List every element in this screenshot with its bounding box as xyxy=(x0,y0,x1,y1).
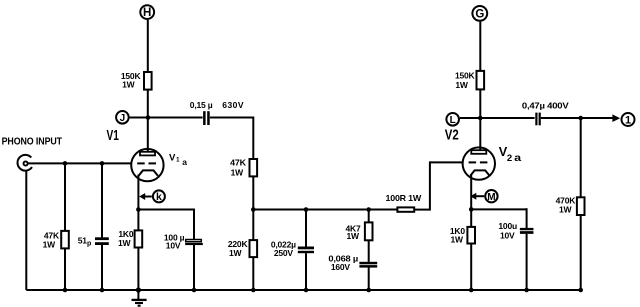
svg-text:M: M xyxy=(487,192,495,203)
svg-text:V2: V2 xyxy=(445,126,459,143)
svg-text:0,15 µ: 0,15 µ xyxy=(190,100,213,110)
svg-text:1W: 1W xyxy=(118,238,132,248)
svg-text:160V: 160V xyxy=(331,262,351,272)
svg-text:V1: V1 xyxy=(107,127,119,144)
svg-text:G: G xyxy=(475,8,484,20)
svg-text:L: L xyxy=(450,115,456,126)
svg-text:630V: 630V xyxy=(222,100,244,110)
svg-text:1W: 1W xyxy=(43,240,57,250)
svg-text:1W: 1W xyxy=(229,248,243,258)
svg-text:1W: 1W xyxy=(231,168,245,178)
svg-text:51: 51 xyxy=(78,235,88,245)
svg-text:1W: 1W xyxy=(451,234,465,244)
svg-text:a: a xyxy=(514,153,522,164)
svg-text:1W: 1W xyxy=(346,231,360,241)
svg-text:250V: 250V xyxy=(274,248,294,258)
svg-text:p: p xyxy=(87,241,91,248)
svg-text:J: J xyxy=(120,113,126,124)
svg-text:1: 1 xyxy=(625,114,631,126)
svg-text:47K: 47K xyxy=(230,158,247,168)
svg-text:1W: 1W xyxy=(559,205,573,215)
svg-text:0,47µ 400V: 0,47µ 400V xyxy=(522,101,569,111)
svg-text:V: V xyxy=(169,152,176,163)
svg-text:k: k xyxy=(156,191,162,203)
svg-text:H: H xyxy=(143,7,151,19)
svg-text:PHONO INPUT: PHONO INPUT xyxy=(2,137,63,148)
svg-text:10V: 10V xyxy=(500,230,515,240)
svg-text:1W: 1W xyxy=(122,79,136,89)
svg-text:2: 2 xyxy=(507,153,512,164)
svg-text:10V: 10V xyxy=(166,241,181,251)
svg-text:a: a xyxy=(182,157,187,167)
svg-text:1W: 1W xyxy=(455,80,469,90)
svg-text:100R 1W: 100R 1W xyxy=(386,193,423,203)
